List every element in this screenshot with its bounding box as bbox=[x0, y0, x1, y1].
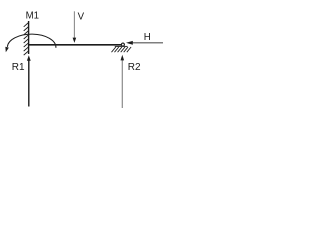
svg-text:M1: M1 bbox=[26, 11, 39, 22]
roller support ground bbox=[112, 46, 132, 52]
reaction R2 arrow bbox=[121, 55, 125, 108]
label M1 bbox=[26, 11, 39, 22]
reaction R1 arrow bbox=[27, 55, 31, 106]
label V bbox=[78, 11, 85, 22]
beam bbox=[28, 44, 121, 46]
roller support pin bbox=[121, 43, 124, 46]
force V arrow bbox=[73, 11, 77, 43]
svg-text:R2: R2 bbox=[128, 62, 141, 73]
force H arrow bbox=[126, 41, 163, 45]
fixed support wall bbox=[24, 21, 29, 55]
label R2 bbox=[128, 62, 141, 73]
label R1 bbox=[12, 62, 25, 73]
svg-text:V: V bbox=[78, 11, 85, 22]
moment M1 arc bbox=[5, 34, 56, 52]
svg-text:R1: R1 bbox=[12, 62, 25, 73]
svg-text:H: H bbox=[144, 32, 151, 43]
label H bbox=[144, 32, 151, 43]
